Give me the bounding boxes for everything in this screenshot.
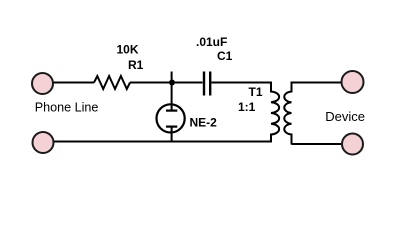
wire bottom from left terminal to transformer primary — [53, 141, 272, 143]
lamp NE-2 (neon bulb) — [157, 72, 185, 142]
terminal device + (top-right) — [342, 71, 364, 93]
label 10K (value of R1) — [117, 43, 139, 57]
svg-text:Device: Device — [325, 109, 365, 124]
label Phone Line (left port) — [35, 101, 99, 115]
wire top-left from terminal to resistor — [52, 82, 94, 84]
capacitor C1 — [204, 72, 210, 96]
svg-text:NE-2: NE-2 — [190, 116, 218, 130]
label 1:1 (turns ratio of T1) — [238, 100, 256, 114]
wire transformer secondary bottom to device terminal — [292, 143, 343, 145]
label T1 (designator) — [249, 85, 263, 99]
svg-text:10K: 10K — [117, 43, 139, 57]
label R1 (designator) — [128, 58, 144, 72]
svg-text:T1: T1 — [249, 85, 263, 99]
transformer T1 primary winding — [271, 82, 279, 143]
label Device (right port) — [325, 109, 365, 124]
svg-text:R1: R1 — [128, 58, 144, 72]
terminal phone line ring (bottom-left) — [33, 132, 54, 153]
label NE-2 (designator) — [190, 116, 218, 130]
svg-text:.01uF: .01uF — [196, 35, 227, 49]
svg-text:1:1: 1:1 — [238, 100, 256, 114]
svg-text:Phone Line: Phone Line — [35, 101, 99, 115]
transformer T1 secondary winding — [284, 82, 291, 145]
wire transformer secondary top to device terminal — [292, 82, 343, 84]
terminal device - (bottom-right) — [342, 134, 363, 155]
label .01uF (value of C1) — [196, 35, 227, 49]
terminal phone line tip (top-left) — [32, 73, 53, 94]
wire from capacitor to transformer primary — [212, 82, 272, 84]
resistor R1 — [94, 76, 130, 89]
wire from resistor to capacitor — [130, 82, 203, 84]
node junction dot at R1/C1/NE-2 tie point — [169, 80, 175, 86]
svg-text:C1: C1 — [217, 49, 233, 63]
label C1 (designator) — [217, 49, 233, 63]
